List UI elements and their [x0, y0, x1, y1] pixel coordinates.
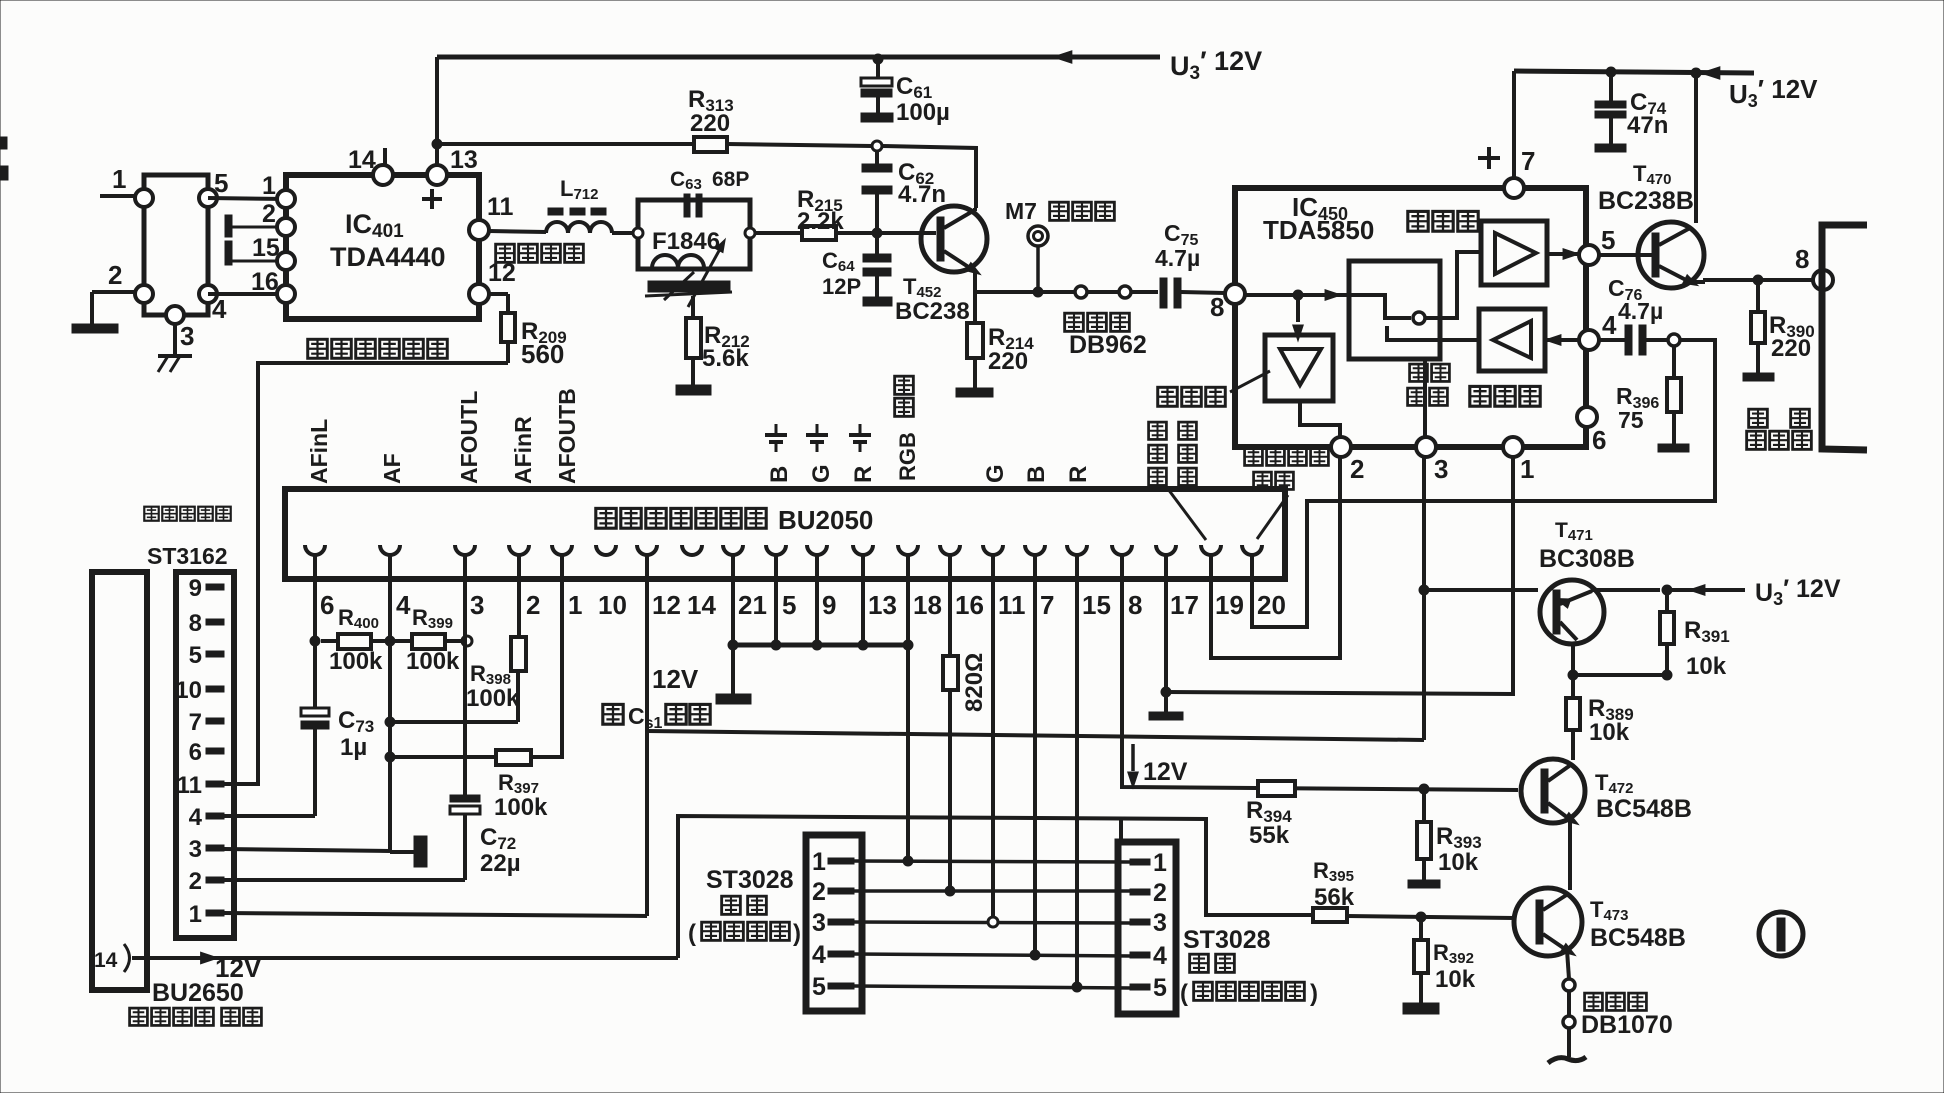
svg-text:AF: AF [379, 453, 405, 484]
label C61 [896, 73, 950, 126]
amplifier block B [1479, 309, 1545, 371]
wire ST3162-1 [224, 913, 647, 916]
label ST3028 right [1180, 926, 1318, 1007]
wire 12V from BU2650 [132, 952, 678, 983]
svg-text:1µ: 1µ [340, 734, 367, 761]
svg-text:18: 18 [913, 590, 942, 620]
svg-text:55k: 55k [1249, 822, 1290, 849]
label R394 [1246, 797, 1292, 849]
node C62 tap [872, 141, 882, 151]
wire T471 collector [1573, 645, 1667, 675]
svg-text:2: 2 [812, 878, 826, 906]
svg-text:100k: 100k [406, 648, 460, 675]
ground R214 [956, 388, 993, 397]
wire emitter line [975, 290, 1158, 294]
svg-text:220: 220 [988, 348, 1028, 375]
wire row4 [854, 954, 1132, 956]
svg-text:4: 4 [396, 590, 411, 620]
capacitor marks B G R [765, 424, 871, 452]
node R391 tap [1662, 585, 1672, 595]
resistor R397 [390, 750, 531, 765]
pin 2 IC401 [262, 200, 295, 236]
label R214 [988, 324, 1034, 375]
resistor R212 [686, 296, 701, 385]
label F1846 [652, 228, 720, 255]
resistor 820 [943, 555, 958, 891]
resistor R215 [797, 186, 844, 240]
label T473 [1590, 897, 1686, 952]
svg-text:BC238B: BC238B [1598, 187, 1694, 215]
label R209 [521, 318, 567, 369]
label L712 [560, 176, 598, 203]
svg-text:2: 2 [1350, 454, 1364, 484]
wire pin13 drop [861, 555, 865, 645]
svg-text:): ) [1310, 980, 1318, 1007]
node R391 bottom [1662, 670, 1672, 680]
wire pin19 to IC pin2 [1211, 458, 1340, 658]
pin 15 IC401 [252, 234, 295, 270]
label preselect board [130, 1008, 262, 1025]
wire pin7 drop [1033, 555, 1037, 954]
label amplifier bottom [1470, 386, 1540, 406]
wire pin1 drop [531, 555, 562, 757]
wire R395 to base [1347, 916, 1514, 918]
wire input pin 1 stub [100, 164, 137, 196]
wire R313 to junction [727, 144, 872, 146]
ground R396 [1658, 444, 1689, 452]
svg-text:5: 5 [1153, 974, 1167, 1002]
wire pin12 drop [645, 555, 649, 916]
node switch contact [1413, 312, 1425, 324]
ground R212 [676, 385, 711, 395]
resistor R398 [390, 637, 526, 722]
wire T470 emitter [1692, 280, 1813, 282]
svg-text:7: 7 [1040, 590, 1054, 620]
label IC450 [1263, 192, 1374, 245]
IC450 box [1235, 188, 1586, 447]
svg-text:3: 3 [470, 590, 484, 620]
svg-text:9: 9 [189, 575, 202, 602]
ground R390 [1743, 373, 1774, 381]
svg-text:RGB: RGB [895, 432, 920, 481]
node C61 tap [873, 54, 883, 64]
IC401 box [286, 175, 479, 319]
svg-text:6: 6 [189, 739, 202, 766]
label signal switch [1408, 364, 1450, 405]
label B2 rotated [1023, 466, 1050, 483]
svg-text:3: 3 [1434, 454, 1448, 484]
wire pin18 drop [906, 555, 910, 861]
svg-text:6: 6 [1592, 425, 1606, 455]
wire R215 to base [836, 231, 936, 235]
label sound IF [308, 339, 448, 358]
connector BU2050 box [285, 489, 1285, 579]
capacitor C62 [862, 151, 892, 229]
pin 3 IC450 [1416, 437, 1448, 484]
wire pin5 to pin1 [208, 198, 286, 199]
label R395 [1313, 858, 1355, 911]
resistor R394 [1258, 781, 1295, 796]
wire pin4 to ampB [1545, 335, 1579, 346]
transistor T470 [1638, 73, 1704, 290]
svg-text:DB962: DB962 [1069, 331, 1147, 359]
svg-text:B: B [766, 466, 793, 483]
svg-text:): ) [793, 920, 801, 947]
connector input box [144, 175, 208, 315]
resistor R391 [1660, 590, 1674, 675]
label M7 [1005, 198, 1114, 224]
wire ST3162-3 [224, 849, 390, 851]
label C51 note [603, 703, 710, 732]
capacitor C74 [1595, 72, 1626, 144]
wire base T471 [1424, 588, 1538, 592]
svg-text:1: 1 [812, 848, 826, 876]
svg-text:5: 5 [1601, 225, 1615, 255]
resistor R395 [1313, 908, 1347, 922]
wire pin6 drop [313, 555, 317, 708]
svg-text:1: 1 [1520, 454, 1534, 484]
resistor R392 [1414, 917, 1428, 1003]
svg-text:56k: 56k [1314, 884, 1355, 911]
resistor R209 [489, 294, 515, 363]
plus mark pin 7 [1478, 147, 1500, 169]
svg-text:5: 5 [782, 590, 796, 620]
node row2-16 [945, 886, 955, 896]
wire pin3 to T471 base [1422, 458, 1426, 740]
svg-text:5: 5 [812, 973, 826, 1001]
svg-text:13: 13 [450, 146, 478, 174]
svg-text:2.2k: 2.2k [797, 208, 844, 235]
svg-text:8: 8 [1128, 590, 1142, 620]
node C76 out [1668, 334, 1680, 346]
svg-text:G: G [808, 464, 835, 483]
node F1846 right [745, 228, 755, 238]
node row4-7 [1030, 950, 1040, 960]
plus mark pin 13 [422, 189, 442, 209]
node 8 video out [1813, 270, 1833, 290]
label BU2650 [152, 979, 244, 1007]
wire pin4 drop [388, 555, 392, 852]
svg-text:3: 3 [189, 836, 202, 863]
svg-text:8: 8 [189, 610, 202, 637]
svg-text:9: 9 [822, 590, 836, 620]
wire switch to ampA [1426, 252, 1481, 318]
svg-text:(: ( [688, 920, 696, 947]
symbol circled mark [1759, 912, 1803, 956]
label U3 12V left [1170, 46, 1262, 84]
label RGB gate [895, 376, 920, 481]
wire callout 20 [1257, 495, 1288, 539]
wire input pin 2 stub [92, 260, 137, 292]
label C75 [1155, 220, 1200, 271]
node M7 tap [1033, 287, 1043, 297]
svg-text:4.7µ: 4.7µ [1618, 298, 1663, 324]
svg-text:ST3028: ST3028 [706, 866, 794, 894]
label C64 [822, 248, 861, 299]
svg-text:AFOUTB: AFOUTB [554, 388, 580, 484]
svg-text:12: 12 [652, 590, 681, 620]
svg-text:1: 1 [112, 164, 126, 194]
wire ampC to pin2 [1300, 401, 1340, 439]
node T471 base tap [1419, 585, 1429, 595]
svg-text:17: 17 [1170, 590, 1199, 620]
wire callout 19 [1168, 489, 1206, 540]
svg-text:4: 4 [1602, 310, 1617, 340]
wire row5 [854, 986, 1132, 988]
node input-2 [135, 285, 153, 303]
label R rotated [850, 466, 877, 483]
wire pin8 input [1245, 290, 1349, 301]
label B rotated [766, 466, 793, 483]
label 12V mid [1143, 758, 1188, 786]
wire pin1 IC450 ground [1166, 458, 1513, 694]
label 820 [961, 653, 988, 712]
wire to U3 right [1667, 585, 1745, 596]
pin 4 IC450 [1579, 310, 1617, 350]
svg-text:220: 220 [690, 110, 730, 137]
svg-text:21: 21 [738, 590, 767, 620]
pin 14 IC401 [348, 146, 393, 185]
wire pin5 to T470 base [1599, 253, 1652, 257]
label R396 [1616, 383, 1659, 433]
wire ST3162-4 [224, 814, 315, 818]
pin 13 IC401 [427, 146, 478, 185]
label ST3162 title [144, 507, 230, 569]
label C73 [338, 707, 374, 761]
label DB962 [1065, 313, 1147, 359]
node bus 21 [728, 640, 738, 650]
pin 1 IC401 [262, 172, 295, 208]
capacitor between pins 2 and 15 [225, 215, 277, 265]
pin 16 IC401 [251, 268, 295, 303]
arrow 12V down [1128, 744, 1139, 788]
svg-text:7: 7 [1521, 146, 1535, 176]
svg-text:15: 15 [252, 234, 280, 262]
label R2 rotated [1065, 466, 1092, 483]
label DB1070 [1581, 993, 1673, 1039]
label C74 [1627, 89, 1668, 139]
svg-text:4.7µ: 4.7µ [1155, 245, 1200, 271]
node bus 13 [858, 640, 868, 650]
label U3 12V right [1729, 74, 1818, 111]
wire ST3162-2 [224, 878, 465, 882]
node input-5 [199, 168, 228, 207]
wire T452 collector [973, 208, 977, 211]
label T471 [1539, 519, 1635, 573]
svg-text:BC308B: BC308B [1539, 545, 1635, 573]
svg-text:560: 560 [521, 339, 564, 369]
transistor T471 [1540, 580, 1604, 644]
node pin6-R400 [310, 636, 320, 646]
svg-text:R: R [1065, 466, 1092, 483]
pin 12 IC401 [469, 259, 516, 304]
label 12V pin12 [652, 664, 699, 694]
wire row2 [854, 889, 1132, 893]
label U3 12V bottom [1755, 575, 1841, 609]
svg-text:3: 3 [180, 321, 194, 351]
pin 8 IC450 [1210, 284, 1245, 322]
resistor R390 [1751, 280, 1765, 373]
pin 2 IC450 [1331, 437, 1364, 484]
ground pin4 line [390, 836, 427, 867]
label ST3028R pins [1130, 849, 1167, 1002]
svg-text:12V: 12V [652, 664, 699, 694]
svg-text:7: 7 [189, 709, 202, 736]
svg-text:AFOUTL: AFOUTL [456, 391, 482, 484]
svg-text:F1846: F1846 [652, 228, 720, 255]
label amplifier left [1158, 371, 1270, 406]
svg-text:1: 1 [189, 901, 202, 928]
node pin4-R398 [385, 717, 395, 727]
svg-text:11: 11 [177, 772, 202, 799]
svg-text:12P: 12P [822, 274, 861, 299]
wire pin3 drop [463, 555, 467, 795]
resistor R396 [1667, 346, 1681, 444]
svg-text:BU2650: BU2650 [152, 979, 244, 1007]
label R398 [466, 661, 520, 712]
node pin13-R313 tee [432, 139, 442, 149]
label ST3028 left [688, 866, 801, 947]
label BU2050 [596, 505, 874, 535]
amplifier block C [1265, 335, 1333, 401]
wire select line [647, 731, 1424, 740]
svg-text:10k: 10k [1589, 719, 1630, 746]
capacitor C72 [450, 795, 480, 880]
core F1846 [645, 281, 732, 296]
wire pin9 drop [815, 555, 819, 645]
svg-text:DB1070: DB1070 [1581, 1011, 1673, 1039]
wire junction to collector corner [882, 146, 976, 208]
svg-text:8: 8 [1210, 292, 1224, 322]
node bus 18 [903, 640, 913, 650]
svg-text:19: 19 [1215, 590, 1244, 620]
svg-text:10: 10 [175, 677, 202, 704]
ground bus [716, 645, 751, 704]
label ST3162 pins [175, 575, 224, 928]
svg-text:4.7n: 4.7n [898, 181, 946, 208]
svg-text:BC548B: BC548B [1590, 924, 1686, 952]
wire 12V riser mid [678, 816, 1313, 958]
node bus 5 [771, 640, 781, 650]
wire scan mark [0, 137, 8, 180]
svg-text:14: 14 [348, 146, 376, 174]
wire R313 line [437, 142, 694, 146]
svg-text:R: R [850, 466, 877, 483]
inductor L712 [546, 208, 612, 233]
ground T473 [1548, 1057, 1586, 1063]
svg-text:B: B [1023, 466, 1050, 483]
label amplifier top [1408, 211, 1478, 231]
capacitor C73 [301, 708, 329, 816]
node input-3 [166, 306, 194, 351]
node R392 tap [1416, 912, 1426, 922]
svg-text:10k: 10k [1686, 653, 1727, 680]
transistor T472 [1521, 759, 1585, 828]
wire pin5 drop [774, 555, 778, 645]
capacitor C64 [863, 237, 891, 297]
connector BU2050 pin hooks [305, 545, 1262, 555]
svg-text:2: 2 [526, 590, 540, 620]
switch box [1349, 261, 1440, 359]
ground R392 [1403, 1003, 1439, 1014]
resistor R400 [321, 634, 385, 649]
svg-text:2: 2 [262, 200, 276, 228]
label video in right [1245, 448, 1329, 489]
svg-text:16: 16 [251, 268, 279, 296]
label AFinL [306, 419, 332, 484]
pin 5 IC450 [1579, 225, 1615, 265]
svg-text:12V: 12V [1143, 758, 1188, 786]
label R392 [1433, 940, 1476, 993]
wire pin11 drop [991, 555, 995, 917]
label C76 [1608, 275, 1663, 324]
node pin4-R397 [385, 752, 395, 762]
arrow 12V right [1701, 67, 1720, 79]
svg-text:75: 75 [1618, 407, 1644, 433]
node R399 out [462, 636, 472, 646]
svg-text:2: 2 [1153, 879, 1167, 907]
ground input-3 [158, 324, 192, 372]
node R390 tap [1753, 275, 1763, 285]
connector ST3028 left box [806, 835, 862, 1011]
arrow F1846 tuning [664, 237, 729, 307]
wire switch internal [1349, 295, 1411, 318]
label R391 [1684, 617, 1730, 680]
pin 6 IC450 [1577, 407, 1606, 455]
svg-text:ST3162: ST3162 [147, 543, 228, 569]
svg-text:1: 1 [568, 590, 582, 620]
svg-text:100µ: 100µ [896, 99, 950, 126]
label R390 [1769, 312, 1815, 362]
svg-text:16: 16 [955, 590, 984, 620]
svg-text:TDA4440: TDA4440 [330, 242, 446, 272]
wire C76 to pin20 riser [1252, 340, 1715, 627]
svg-text:100k: 100k [329, 648, 383, 675]
label node 8 [1795, 244, 1809, 274]
ground input-2 [72, 292, 118, 333]
node row1-18 [903, 856, 913, 866]
node input-4 [199, 285, 227, 324]
resistor R313 [688, 86, 734, 152]
label R397 [494, 770, 548, 821]
transistor T473 [1514, 888, 1582, 959]
svg-text:820Ω: 820Ω [961, 653, 988, 712]
svg-text:4: 4 [812, 941, 826, 969]
svg-text:10k: 10k [1435, 966, 1476, 993]
ground R393 [1408, 880, 1440, 888]
wire board bracket [1822, 225, 1867, 450]
label video signal [496, 244, 584, 262]
svg-text:5: 5 [189, 642, 202, 669]
svg-text:10: 10 [598, 590, 627, 620]
wire gnd bus [733, 643, 908, 648]
svg-text:68P: 68P [712, 168, 749, 191]
svg-text:4: 4 [1153, 942, 1167, 970]
svg-text:3: 3 [812, 909, 826, 937]
svg-text:M7: M7 [1005, 198, 1037, 224]
arrow 12V bus [1053, 51, 1072, 63]
svg-text:TDA5850: TDA5850 [1263, 215, 1374, 245]
label video in col [1149, 422, 1197, 485]
svg-text:BC548B: BC548B [1596, 795, 1692, 823]
svg-text:3: 3 [1153, 909, 1167, 937]
wire pin15 drop [1075, 555, 1079, 987]
node F1846 left [633, 228, 643, 238]
label R399 [406, 605, 460, 675]
svg-text:100k: 100k [494, 794, 548, 821]
node R394 tap [1419, 784, 1429, 794]
label AFinR [510, 416, 536, 484]
